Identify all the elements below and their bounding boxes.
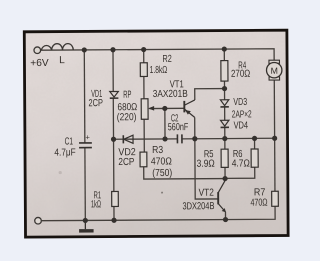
diode VD1 bbox=[88, 89, 118, 109]
node motor bottom junction bbox=[272, 136, 277, 141]
node wiper junction bbox=[162, 106, 167, 111]
wire VT1 base link bbox=[149, 107, 184, 109]
svg-text:VT2: VT2 bbox=[199, 188, 215, 199]
capacitor C1 bbox=[79, 143, 92, 148]
node VD4 bottom junction bbox=[222, 136, 227, 141]
wire top rail bbox=[41, 49, 274, 62]
wire wiper vertical bbox=[164, 108, 166, 138]
wire R1 column bbox=[113, 139, 115, 220]
node top C1 bbox=[82, 47, 87, 52]
node top VD1 bbox=[110, 47, 115, 52]
svg-text:(750): (750) bbox=[152, 168, 172, 179]
terminal +6V bbox=[34, 47, 41, 54]
svg-text:4.7Ω: 4.7Ω bbox=[232, 158, 251, 169]
svg-text:R2: R2 bbox=[163, 54, 173, 65]
wire VT2 emitter bottom bbox=[224, 212, 226, 220]
capacitor C2 bbox=[168, 113, 189, 143]
wire R4 column bbox=[223, 49, 226, 138]
diode VD4 bbox=[220, 109, 252, 131]
svg-text:C1: C1 bbox=[65, 137, 74, 148]
resistor R2 bbox=[140, 54, 172, 77]
wire mid rail bbox=[114, 137, 275, 140]
svg-text:3AX201B: 3AX201B bbox=[153, 89, 188, 100]
svg-text:3DX204B: 3DX204B bbox=[182, 201, 214, 212]
svg-text:RP: RP bbox=[123, 90, 131, 101]
svg-text:M: M bbox=[271, 66, 278, 76]
svg-text:(220): (220) bbox=[117, 112, 137, 123]
wire R5 column bbox=[224, 139, 226, 181]
node top R2 bbox=[141, 47, 146, 52]
node R6 top junction bbox=[252, 136, 257, 141]
diode VD2 bbox=[118, 135, 136, 168]
node wiper bottom junction bbox=[162, 136, 167, 141]
diode VD3 bbox=[220, 97, 247, 108]
svg-text:1kΩ: 1kΩ bbox=[91, 199, 101, 210]
ground bbox=[84, 220, 86, 229]
potentiometer RP bbox=[117, 90, 155, 124]
schematic paper bbox=[23, 29, 290, 239]
wire bottom rail bbox=[42, 206, 275, 220]
resistor R5 bbox=[196, 149, 228, 170]
transistor VT1 bbox=[153, 79, 195, 117]
resistor R4 bbox=[221, 60, 251, 81]
resistor R3 bbox=[140, 145, 172, 179]
resistor R1 bbox=[91, 190, 119, 210]
svg-text:2CP: 2CP bbox=[88, 98, 103, 109]
svg-text:+: + bbox=[85, 133, 90, 142]
svg-text:470Ω: 470Ω bbox=[151, 156, 172, 167]
wire R6 column bbox=[225, 138, 255, 178]
svg-text:L: L bbox=[59, 55, 65, 66]
resistor R6 bbox=[232, 149, 259, 170]
terminal bottom bbox=[35, 217, 42, 224]
speck bbox=[59, 171, 62, 174]
svg-text:560nF: 560nF bbox=[168, 122, 189, 133]
node emitter junction bbox=[192, 136, 197, 141]
wire R2 RP R3 column bbox=[143, 49, 225, 179]
node R1 bottom bbox=[111, 218, 116, 223]
svg-text:3.9Ω: 3.9Ω bbox=[197, 159, 216, 170]
svg-text:270Ω: 270Ω bbox=[231, 69, 251, 80]
wire VT1 collector link bbox=[195, 89, 225, 100]
svg-text:4.7μF: 4.7μF bbox=[54, 147, 75, 158]
resistor R7 bbox=[250, 187, 278, 208]
wire C1 column lower bbox=[84, 148, 86, 221]
node top R4 bbox=[222, 46, 227, 51]
node ground junction bbox=[83, 218, 88, 223]
wire motor to R7 bbox=[273, 80, 276, 191]
node R3 R5 VT2 junction bbox=[222, 176, 227, 181]
wire VD1 column bbox=[112, 50, 115, 139]
svg-text:2AP×2: 2AP×2 bbox=[232, 109, 252, 120]
node VT2 emitter bottom bbox=[223, 217, 228, 222]
svg-text:2CP: 2CP bbox=[118, 157, 134, 168]
svg-text:R3: R3 bbox=[152, 145, 163, 156]
wire VT1 emitter down to VT2 base bbox=[195, 117, 218, 199]
motor M bbox=[266, 60, 282, 80]
speck bbox=[161, 192, 163, 194]
svg-text:470Ω: 470Ω bbox=[250, 198, 268, 209]
schematic frame bbox=[24, 30, 288, 237]
inductor L bbox=[41, 44, 73, 51]
wire C1 column upper bbox=[83, 50, 86, 143]
transistor VT2 bbox=[182, 181, 226, 213]
svg-text:VD4: VD4 bbox=[234, 120, 249, 131]
node collector R4 junction bbox=[222, 86, 227, 91]
svg-text:+6V: +6V bbox=[30, 58, 49, 69]
node VD1 VD2 junction bbox=[111, 137, 116, 142]
svg-text:VD3: VD3 bbox=[233, 97, 247, 108]
svg-text:1.8kΩ: 1.8kΩ bbox=[150, 65, 168, 76]
